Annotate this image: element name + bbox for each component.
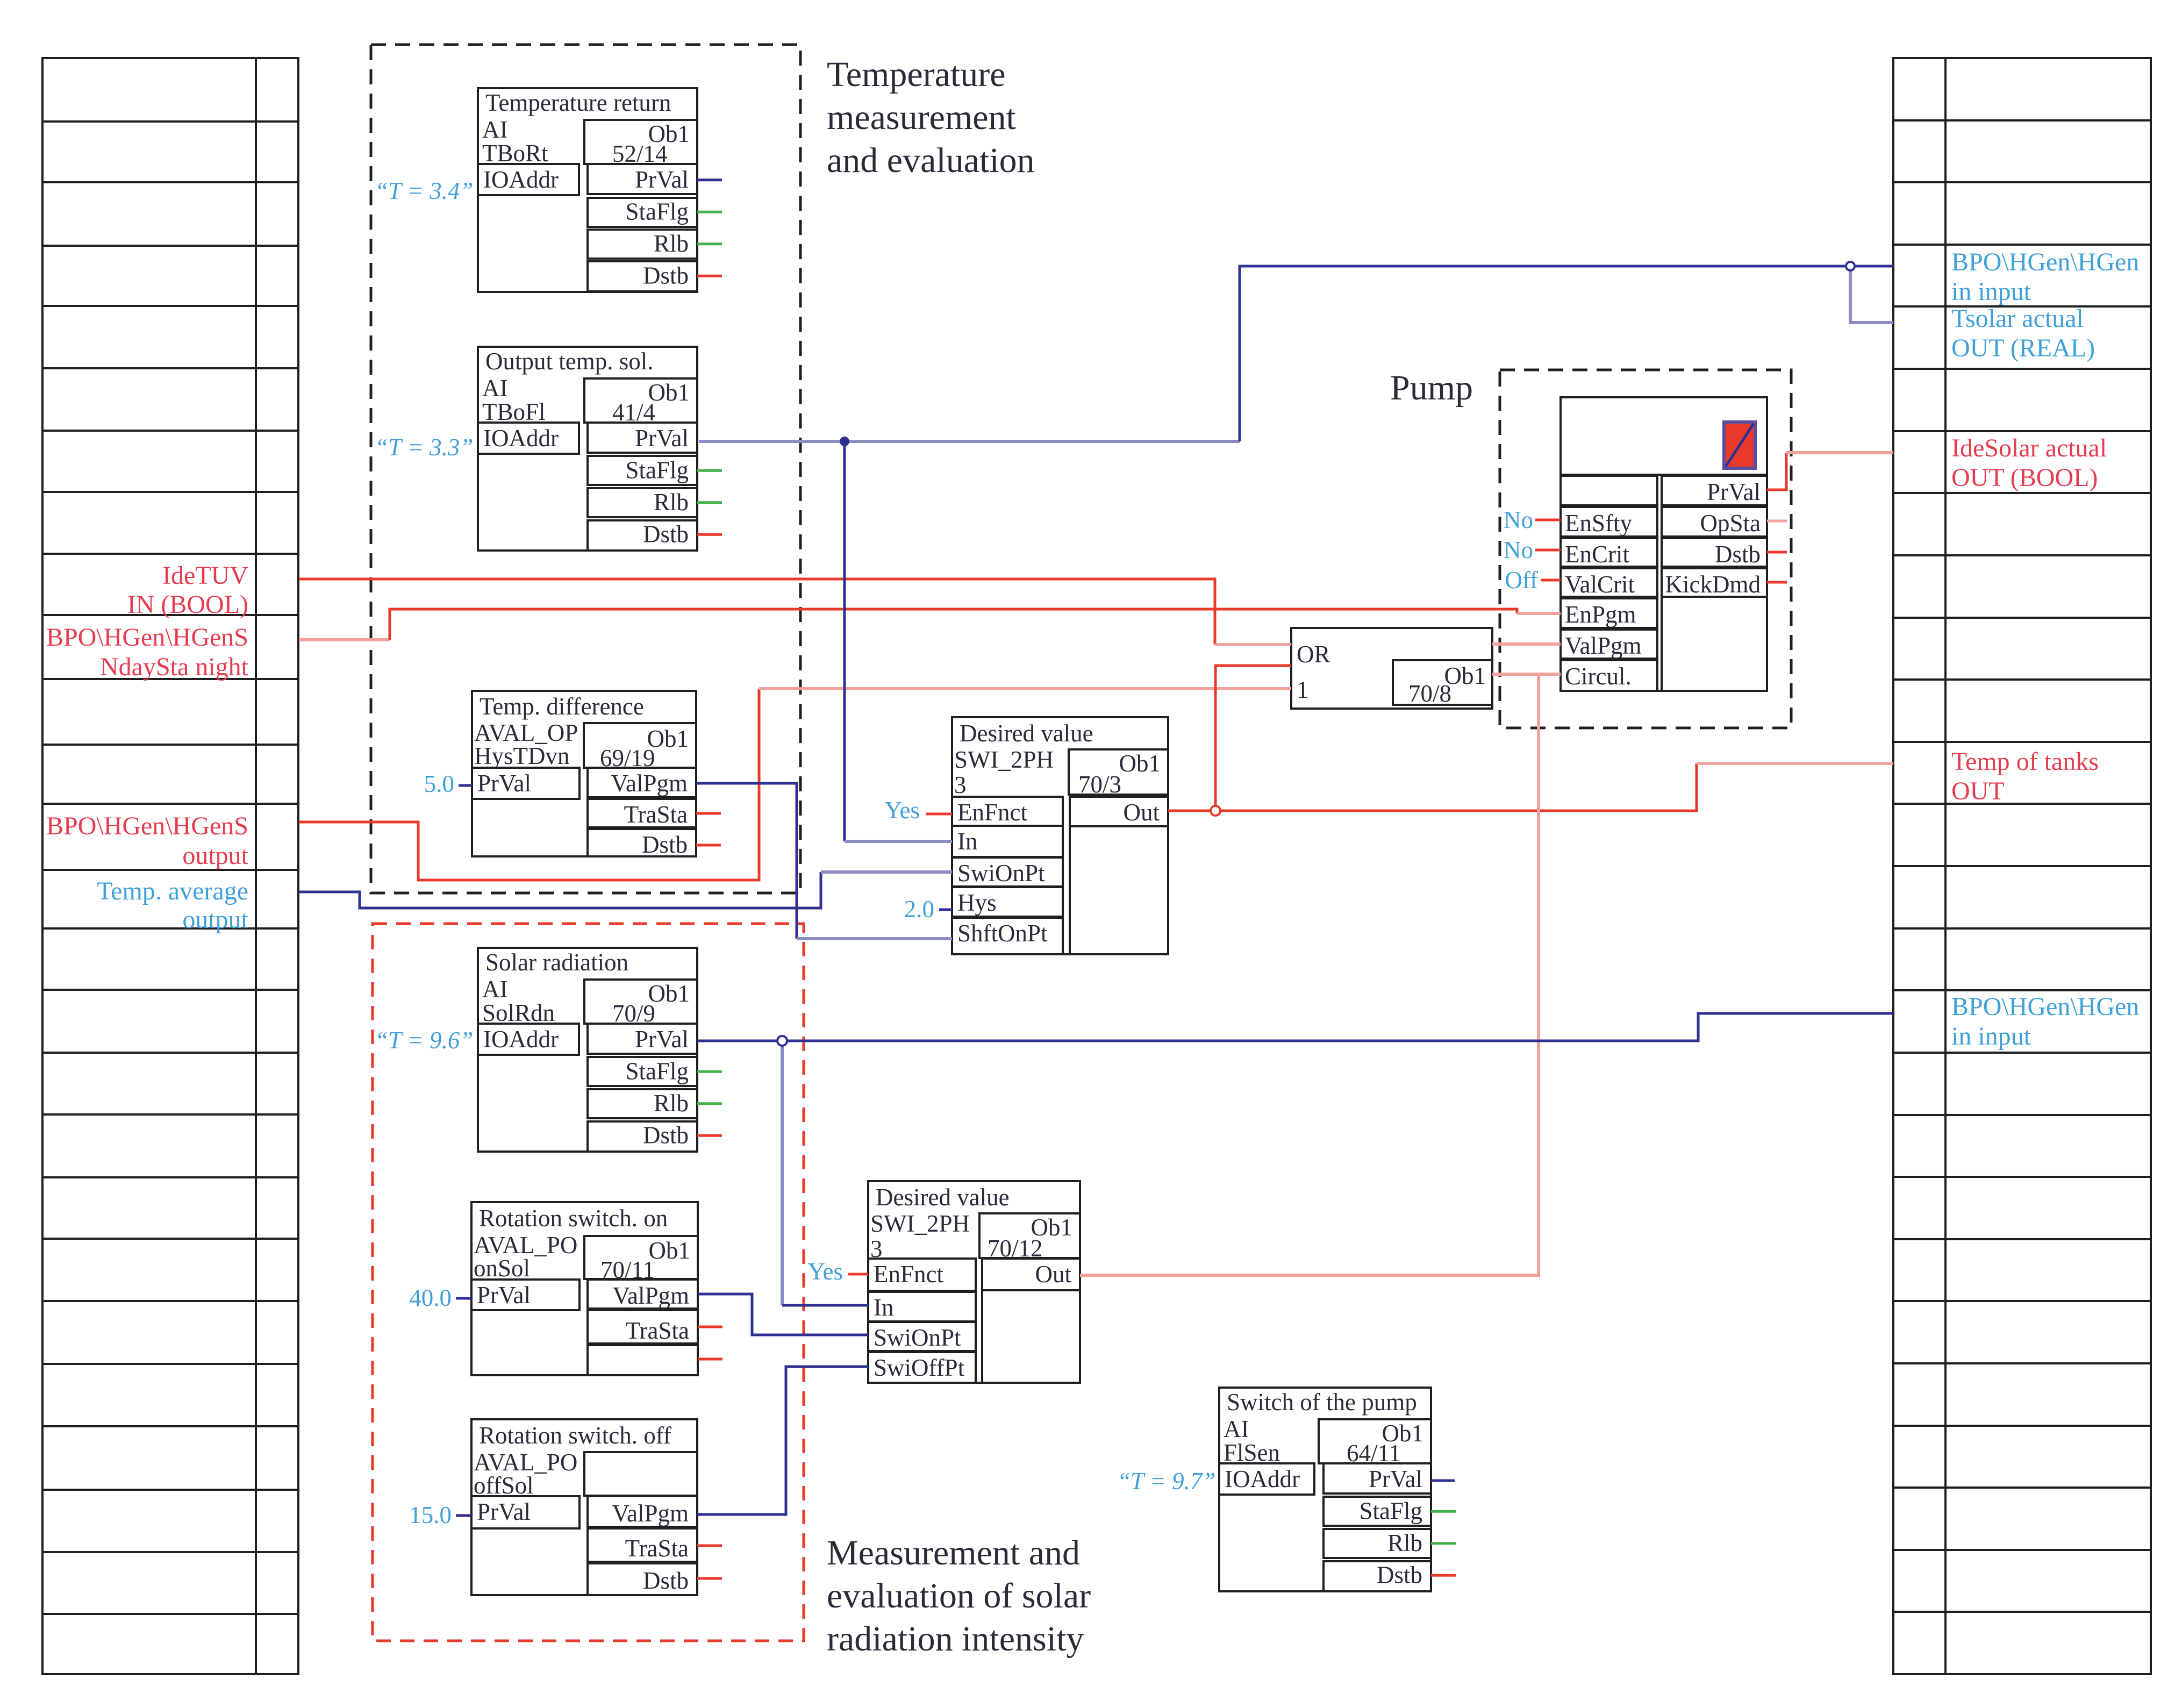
svg-text:“T = 9.7”: “T = 9.7”	[1117, 1468, 1215, 1495]
svg-text:BPO\HGen\HGen: BPO\HGen\HGen	[1951, 248, 2139, 276]
svg-text:AI: AI	[482, 976, 507, 1003]
svg-text:AI: AI	[482, 116, 507, 143]
svg-text:OUT (BOOL): OUT (BOOL)	[1951, 463, 2098, 492]
value label No (Pump EnSfty)	[1504, 506, 1533, 533]
wire 40.0 to U5 PrVal	[456, 1297, 471, 1300]
svg-text:5.0: 5.0	[424, 770, 454, 797]
wire No to Pump EnSfty	[1535, 519, 1561, 521]
svg-text:OpSta: OpSta	[1700, 510, 1761, 537]
svg-text:FlSen: FlSen	[1224, 1439, 1280, 1466]
svg-text:measurement: measurement	[827, 98, 1016, 137]
value label No (Pump EnCrit)	[1504, 537, 1533, 563]
function block U11: Switch of the pump (AI FlSen, Ob1 64/11)	[1219, 1388, 1456, 1591]
svg-text:StaFlg: StaFlg	[625, 198, 689, 225]
svg-text:PrVal: PrVal	[635, 1026, 689, 1053]
svg-text:Dstb: Dstb	[1377, 1562, 1422, 1589]
svg-text:Rotation switch. on: Rotation switch. on	[479, 1205, 668, 1232]
svg-text:offSol: offSol	[474, 1472, 534, 1499]
svg-text:SWI_2PH: SWI_2PH	[870, 1210, 970, 1237]
wire net U2 PrVal -> BPO in input / Tsolar actual / U7 In	[699, 266, 1893, 841]
svg-text:PrVal: PrVal	[1707, 478, 1761, 505]
svg-text:output: output	[182, 841, 248, 870]
junction dot on U2 PrVal wire at branch to Tsolar	[1846, 262, 1855, 270]
svg-text:SolRdn: SolRdn	[482, 999, 555, 1026]
svg-text:Circul.: Circul.	[1565, 663, 1632, 690]
dashed region: solar radiation (red)	[373, 924, 804, 1641]
terminal label Temp of tanks OUT	[1951, 747, 2099, 805]
tick Pump OpSta	[1767, 520, 1787, 523]
value label T = 9.6 (U4 IOAddr)	[375, 1027, 473, 1054]
svg-text:EnPgm: EnPgm	[1565, 601, 1636, 628]
svg-text:In: In	[957, 828, 978, 855]
wire 15.0 to U6 PrVal	[456, 1514, 471, 1517]
svg-text:BPO\HGen\HGen: BPO\HGen\HGen	[1951, 992, 2139, 1021]
function block U3: Temp. difference (AVAL_OP HysTDvn, Ob1 69/19)	[472, 691, 721, 858]
svg-text:Hys: Hys	[957, 889, 997, 916]
svg-text:IdeTUV: IdeTUV	[162, 561, 248, 590]
left I/O terminal strip (26 rows)	[42, 58, 298, 1674]
svg-text:Out: Out	[1124, 799, 1160, 826]
wire 2.0 to U7 Hys	[939, 909, 952, 911]
svg-text:Rlb: Rlb	[654, 1090, 689, 1117]
region title: Pump	[1390, 368, 1473, 408]
function block U5: Rotation switch. on (AVAL_PO onSol, Ob1 70/11)	[471, 1202, 722, 1375]
svg-text:onSol: onSol	[474, 1255, 530, 1282]
wire net U4 PrVal -> BPO in input (bottom) / U8 In	[697, 1013, 1893, 1305]
svg-text:Dstb: Dstb	[642, 831, 688, 858]
svg-text:40.0: 40.0	[409, 1284, 452, 1311]
terminal label Tsolar actual OUT (REAL)	[1951, 304, 2095, 362]
function block U10: Pump drive block	[1561, 397, 1767, 691]
svg-text:Desired value: Desired value	[876, 1184, 1010, 1211]
junction on U7 Out wire	[1211, 806, 1220, 816]
svg-text:70/8: 70/8	[1408, 680, 1451, 707]
dashed region: Temperature measurement and evaluation	[371, 45, 800, 893]
svg-text:1: 1	[1297, 676, 1309, 703]
svg-text:and evaluation: and evaluation	[827, 141, 1035, 180]
svg-text:evaluation of solar: evaluation of solar	[827, 1576, 1091, 1616]
svg-text:PrVal: PrVal	[635, 166, 689, 193]
svg-text:EnFnct: EnFnct	[874, 1261, 943, 1288]
terminal label BPO\HGen\HGen in input (bottom)	[1951, 992, 2139, 1050]
svg-text:OUT (REAL): OUT (REAL)	[1951, 334, 2095, 362]
svg-text:KickDmd: KickDmd	[1665, 571, 1761, 598]
wire No to Pump EnCrit	[1535, 549, 1561, 552]
terminal label IdeSolar actual OUT (BOOL)	[1951, 434, 2107, 492]
tick Pump Dstb	[1767, 551, 1787, 554]
function block U8: Desired value (SWI_2PH 3, Ob1 70/12)	[868, 1181, 1080, 1383]
svg-text:Rotation switch. off: Rotation switch. off	[479, 1422, 671, 1449]
wire net OR out -> Pump ValPgm	[1492, 642, 1561, 646]
svg-text:OUT: OUT	[1951, 777, 2005, 805]
svg-text:IN (BOOL): IN (BOOL)	[127, 590, 248, 619]
svg-text:Off: Off	[1505, 567, 1538, 594]
function block U9: OR 1 (Ob1 70/8)	[1291, 628, 1492, 709]
svg-text:BPO\HGen\HGenS: BPO\HGen\HGenS	[46, 812, 248, 840]
svg-text:AI: AI	[1224, 1416, 1249, 1442]
svg-text:Ob1: Ob1	[1119, 750, 1161, 777]
svg-text:Out: Out	[1035, 1261, 1072, 1288]
wire net Pump PrVal -> IdeSolar actual OUT	[1767, 453, 1893, 490]
svg-text:Rlb: Rlb	[1387, 1530, 1422, 1556]
svg-text:output: output	[182, 905, 248, 934]
svg-text:ValPgm: ValPgm	[611, 770, 688, 797]
svg-text:in input: in input	[1951, 1022, 2031, 1050]
svg-text:PrVal: PrVal	[477, 1282, 531, 1309]
value label 2.0 (U7 Hys)	[904, 896, 934, 923]
svg-text:In: In	[874, 1294, 894, 1321]
wire net IdeTUV -> OR input 1	[299, 579, 1291, 645]
wire net OR Ob1 / U8 Out -> Pump Circul.	[1080, 674, 1561, 1275]
svg-text:in input: in input	[1951, 277, 2031, 306]
wire 5.0 to U3 PrVal	[459, 784, 472, 787]
svg-text:No: No	[1504, 506, 1533, 533]
svg-text:EnSfty: EnSfty	[1565, 510, 1633, 537]
wire net U6 ValPgm -> U8 SwiOffPt	[697, 1367, 868, 1514]
svg-text:StaFlg: StaFlg	[1359, 1498, 1422, 1525]
wire net U7 Out -> Temp of tanks OUT, branch to OR input 2	[1168, 666, 1893, 811]
svg-text:Tsolar actual: Tsolar actual	[1951, 304, 2084, 333]
svg-text:Temperature return: Temperature return	[485, 89, 671, 116]
svg-text:radiation intensity: radiation intensity	[827, 1619, 1084, 1659]
value label T = 9.7 (U11 IOAddr)	[1117, 1468, 1215, 1495]
svg-text:HysTDvn: HysTDvn	[474, 742, 570, 769]
svg-text:Dstb: Dstb	[643, 1567, 689, 1594]
svg-text:StaFlg: StaFlg	[625, 1058, 689, 1085]
svg-text:Desired value: Desired value	[960, 720, 1093, 747]
svg-text:SwiOffPt: SwiOffPt	[874, 1354, 965, 1381]
svg-text:ValPgm: ValPgm	[612, 1500, 689, 1527]
svg-text:Pump: Pump	[1390, 368, 1473, 408]
wire Yes to U8 EnFnct	[848, 1273, 868, 1276]
svg-text:“T = 9.6”: “T = 9.6”	[375, 1027, 473, 1054]
value label T = 3.3 (U2 IOAddr)	[375, 434, 473, 461]
svg-text:Rlb: Rlb	[654, 489, 689, 516]
svg-text:PrVal: PrVal	[1369, 1466, 1422, 1492]
svg-text:ValPgm: ValPgm	[612, 1282, 689, 1309]
svg-text:15.0: 15.0	[409, 1502, 452, 1528]
terminal label Temp. average output	[97, 877, 248, 934]
svg-text:Temperature: Temperature	[827, 55, 1006, 94]
svg-text:No: No	[1504, 537, 1533, 563]
value label 40.0 (U5 PrVal)	[409, 1284, 452, 1311]
svg-text:IOAddr: IOAddr	[483, 1026, 559, 1053]
terminal label BPO\HGen\HGenS output	[46, 812, 249, 870]
svg-text:TBoFl: TBoFl	[482, 398, 546, 425]
svg-text:70/3: 70/3	[1078, 771, 1121, 798]
svg-text:2.0: 2.0	[904, 896, 934, 923]
svg-text:PrVal: PrVal	[477, 1498, 531, 1525]
function block U7: Desired value (SWI_2PH 3, Ob1 70/3)	[952, 717, 1168, 954]
svg-text:SWI_2PH: SWI_2PH	[954, 746, 1054, 773]
wire net NdaySta night -> Pump EnPgm	[299, 609, 1561, 640]
function block U2: Output temp. sol. (AI TBoFl, Ob1 41/4)	[478, 347, 722, 551]
function block U6: Rotation switch. off (AVAL_PO offSol)	[471, 1419, 722, 1595]
wire net Temp. average output -> U7 SwiOnPt	[299, 872, 952, 908]
wire Yes to U7 EnFnct	[926, 813, 952, 816]
svg-text:Dstb: Dstb	[643, 1122, 689, 1149]
svg-text:Dstb: Dstb	[643, 521, 689, 548]
svg-text:EnFnct: EnFnct	[957, 799, 1027, 826]
svg-text:OR: OR	[1297, 641, 1330, 668]
svg-text:IdeSolar actual: IdeSolar actual	[1951, 434, 2107, 462]
terminal label BPO\HGen\HGen in input (top)	[1951, 248, 2139, 306]
svg-text:IOAddr: IOAddr	[483, 166, 559, 193]
svg-text:TraSta: TraSta	[625, 1535, 689, 1562]
svg-text:Temp. average: Temp. average	[97, 877, 248, 905]
region title: Measurement and evaluation of solar radiation intensity	[827, 1533, 1091, 1659]
svg-text:Temp. difference: Temp. difference	[480, 693, 644, 720]
svg-text:AI: AI	[482, 375, 507, 402]
svg-text:Rlb: Rlb	[654, 230, 689, 257]
svg-text:“T = 3.3”: “T = 3.3”	[375, 434, 473, 461]
svg-text:SwiOnPt: SwiOnPt	[957, 860, 1045, 887]
svg-text:BPO\HGen\HGenS: BPO\HGen\HGenS	[46, 623, 248, 652]
svg-text:TraSta: TraSta	[624, 801, 688, 828]
wire Off to Pump ValCrit	[1541, 579, 1561, 582]
svg-text:PrVal: PrVal	[635, 425, 689, 452]
svg-text:ValCrit: ValCrit	[1565, 571, 1635, 598]
function block U4: Solar radiation (AI SolRdn, Ob1 70/9)	[478, 948, 722, 1152]
svg-text:IOAddr: IOAddr	[1225, 1466, 1300, 1492]
junction ring on U4 PrVal wire	[777, 1036, 787, 1046]
value label 5.0 (U3 PrVal)	[424, 770, 454, 797]
dashed region: Pump	[1500, 370, 1791, 728]
svg-text:3: 3	[954, 771, 967, 798]
svg-text:Temp of tanks: Temp of tanks	[1951, 747, 2099, 776]
svg-text:EnCrit: EnCrit	[1565, 541, 1629, 568]
svg-text:Switch of the pump: Switch of the pump	[1227, 1389, 1417, 1416]
svg-text:Measurement and: Measurement and	[827, 1533, 1080, 1573]
svg-text:NdaySta night: NdaySta night	[100, 653, 249, 681]
svg-text:ValPgm: ValPgm	[1565, 632, 1642, 659]
value label 15.0 (U6 PrVal)	[409, 1502, 452, 1528]
svg-text:Ob1: Ob1	[649, 1237, 691, 1264]
svg-text:Yes: Yes	[885, 797, 920, 824]
svg-text:IOAddr: IOAddr	[483, 425, 559, 452]
tick U11 PrVal	[1431, 1480, 1455, 1482]
value label Yes (U8 EnFnct)	[808, 1258, 843, 1285]
svg-text:SwiOnPt: SwiOnPt	[874, 1324, 961, 1351]
pump icon (red square with diagonal)	[1724, 422, 1755, 468]
svg-text:Dstb: Dstb	[643, 262, 689, 289]
svg-text:TraSta: TraSta	[626, 1317, 689, 1344]
value label T = 3.4 (U1 IOAddr)	[375, 177, 473, 204]
value label Off (Pump ValCrit)	[1505, 567, 1538, 594]
terminal label BPO\HGen\HGenS NdaySta night	[46, 623, 249, 681]
wire net BPO HGenS output -> OR input 3	[299, 689, 1291, 880]
function block U1: Temperature return (AI TBoRt, Ob1 52/14)	[478, 88, 722, 292]
svg-text:Yes: Yes	[808, 1258, 843, 1285]
tick Pump KickDmd	[1767, 581, 1787, 584]
wire net U3 ValPgm -> U7 ShftOnPt	[696, 783, 952, 939]
svg-text:ShftOnPt: ShftOnPt	[957, 920, 1048, 947]
svg-text:StaFlg: StaFlg	[625, 457, 689, 484]
terminal label IdeTUV IN (BOOL)	[127, 561, 249, 619]
svg-text:PrVal: PrVal	[477, 770, 531, 797]
svg-text:“T = 3.4”: “T = 3.4”	[375, 177, 473, 204]
wire net U5 ValPgm -> U8 SwiOnPt	[698, 1294, 868, 1335]
junction dot on U2 PrVal wire at branch to U7 In	[840, 437, 849, 446]
value label Yes (U7 EnFnct)	[885, 797, 920, 824]
svg-text:Dstb: Dstb	[1715, 541, 1761, 568]
region title: Temperature measurement and evaluation	[827, 55, 1035, 180]
svg-text:Solar radiation: Solar radiation	[485, 949, 628, 976]
right I/O terminal strip (26 rows)	[1893, 58, 2151, 1674]
svg-text:Output temp. sol.: Output temp. sol.	[485, 348, 654, 375]
svg-text:TBoRt: TBoRt	[482, 140, 548, 167]
